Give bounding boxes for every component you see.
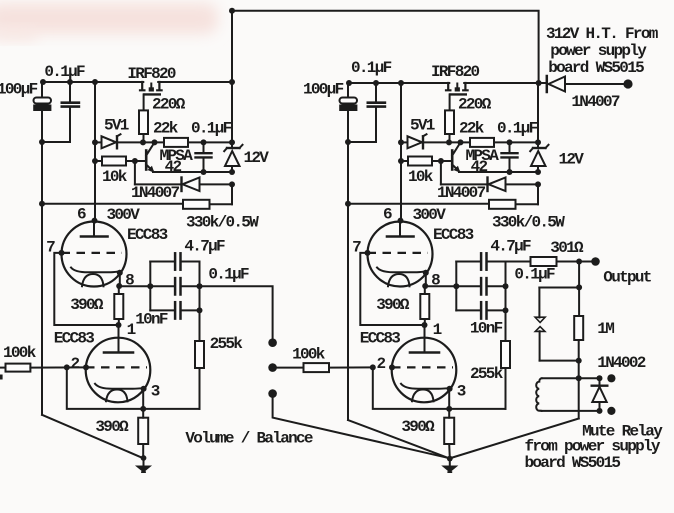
svg-text:301Ω: 301Ω	[550, 239, 584, 257]
wire base column to 1N4007 cathode (right)	[440, 161, 442, 184]
capacitor 4.7µF (right) right wire	[488, 261, 506, 263]
node cap-bank left bus junction (right)	[453, 283, 459, 289]
wire zener column upper feed (left)	[231, 82, 233, 142]
wire 22k to zener column (left)	[188, 141, 232, 143]
resistor 220Ω (left)	[139, 110, 148, 134]
capacitor 10nF (left) plates	[174, 302, 177, 318]
svg-text:100k: 100k	[3, 344, 37, 362]
tube upper (left) anode	[93, 221, 95, 236]
capacitor 10nF (left) right wire	[182, 309, 200, 311]
node pin1 junction (right)	[422, 322, 428, 328]
tube upper (right) cathode	[377, 268, 426, 273]
svg-text:3: 3	[457, 383, 466, 401]
node emitter/12V anode (right)	[535, 169, 541, 175]
resistor 22k (left)	[164, 138, 188, 147]
node 1M top junction	[576, 284, 582, 290]
wire 390Ω to pin1 node (left)	[118, 319, 120, 325]
wire left output to pot top	[200, 286, 273, 338]
wire contact to 1M column	[540, 360, 579, 362]
transistor IRF820 (right) drain lead	[446, 83, 450, 90]
tube lower (left) heater dome	[106, 390, 128, 402]
node ground column / 330k wire (right)	[345, 201, 351, 207]
node 0.1µF/rail junction (left)	[67, 79, 73, 85]
svg-text:390Ω: 390Ω	[70, 296, 104, 314]
wire 10k to MPSA42 base (right)	[432, 160, 451, 162]
node 12V zener top junction (right)	[535, 139, 541, 145]
wire 5V1 cathode to gate net (right)	[422, 141, 450, 143]
svg-text:0.1µF: 0.1µF	[351, 59, 392, 77]
wire 330k to ground column (left)	[42, 203, 183, 205]
transistor IRF820 (right) gate lead	[449, 94, 451, 111]
wire emitter row (left)	[153, 171, 232, 173]
capacitor 10nF (left) left wire	[150, 309, 174, 311]
node ground column / 330k wire (left)	[39, 201, 45, 207]
capacitor 100µF (left channel) lead	[41, 82, 43, 97]
wire base column to 1N4007 cathode (left)	[134, 161, 136, 184]
capacitor 10nF (right) plates	[480, 302, 483, 318]
capacitor 4.7µF (right) plates	[480, 253, 483, 269]
svg-text:220Ω: 220Ω	[458, 96, 492, 114]
tube ECC83 lower triode (left) envelope	[86, 338, 151, 403]
svg-text:12V: 12V	[559, 151, 585, 169]
node 0.1µF/rail junction (right)	[373, 80, 379, 86]
wire B+ rail right segment (right channel)	[464, 82, 538, 84]
relay contact (mute)	[538, 288, 540, 318]
tube upper (left) heater dome	[82, 274, 104, 286]
wire right bus to 255k (left)	[199, 310, 201, 341]
svg-text:power supply: power supply	[550, 42, 647, 60]
svg-text:220Ω: 220Ω	[152, 96, 186, 114]
node cap-bank right bus junction (left)	[197, 283, 203, 289]
node rail / 300V column junction (left)	[92, 79, 98, 85]
wire 300V column (left)	[94, 82, 96, 221]
svg-text:390Ω: 390Ω	[401, 418, 435, 436]
svg-text:100µF: 100µF	[303, 81, 344, 99]
wire B+ rail right segment (left channel)	[158, 81, 232, 83]
wire output row to relay contact	[539, 287, 579, 289]
svg-text:1N4007: 1N4007	[571, 93, 620, 111]
wire 100k to grid junction (left)	[30, 366, 86, 368]
node tube pin 3 cathode exit (right)	[447, 386, 453, 392]
wire output node down	[578, 262, 580, 317]
resistor 220Ω (right)	[445, 110, 454, 134]
svg-text:ECC83: ECC83	[360, 330, 401, 348]
node 220Ω bottom (left)	[140, 139, 146, 145]
node tube pin 8 cathode exit (right)	[423, 270, 429, 276]
wire H.T. diode to terminal	[565, 83, 624, 85]
svg-text:1: 1	[433, 321, 442, 339]
node base/1N4007 junction (left)	[132, 158, 138, 164]
node 12V zener top junction (left)	[229, 139, 235, 145]
capacitor 0.1µF (left) left wire	[150, 285, 174, 287]
svg-text:Output: Output	[603, 269, 652, 287]
transistor IRF820 (right) source lead	[463, 83, 467, 90]
node grid-return junction (left)	[64, 364, 70, 370]
wire pin3 down (left)	[142, 389, 144, 409]
wire 100µF negative to ground column (left)	[41, 111, 43, 142]
node pin1 junction (left)	[116, 322, 122, 328]
svg-text:ECC83: ECC83	[127, 226, 168, 244]
svg-text:42: 42	[471, 158, 488, 176]
node base/1N4007 junction (right)	[438, 158, 444, 164]
capacitor 0.1µF (right) left wire	[456, 285, 480, 287]
resistor 390Ω lower (left)	[138, 418, 148, 444]
wire top link to left rail	[231, 11, 233, 82]
node left rail / top link	[229, 79, 235, 85]
wire pin3 down (right)	[448, 389, 450, 409]
wire cap-bank left bus (left)	[149, 262, 151, 311]
node output junction	[576, 259, 582, 265]
node right rail / H.T. entry	[536, 80, 542, 86]
ground symbol (right)	[449, 459, 451, 467]
svg-text:5V1: 5V1	[410, 117, 435, 135]
transistor MPSA42 (right) base bar	[451, 151, 454, 170]
capacitor 0.1µF decoupling (right) bottom lead	[375, 108, 377, 142]
svg-text:6: 6	[383, 206, 392, 224]
wire cap-bank right bus (left)	[199, 262, 201, 311]
tube upper (right) grid (dashed)	[368, 252, 428, 254]
svg-text:2: 2	[377, 355, 386, 373]
wire 22k to zener column (right)	[494, 141, 538, 143]
wire zener column lower (right)	[537, 166, 539, 172]
resistor 100k interstage	[304, 363, 330, 372]
node rail / 300V column junction (right)	[398, 80, 404, 86]
svg-text:0.1µF: 0.1µF	[191, 120, 232, 138]
transistor IRF820 (left) gate lead	[143, 94, 145, 111]
transistor IRF820 (left) body arrow	[149, 87, 154, 91]
svg-text:12V: 12V	[244, 149, 270, 167]
capacitor 4.7µF (left) right wire	[182, 261, 200, 263]
node tube pin 2 grid entry (left)	[83, 364, 89, 370]
wire 10k to MPSA42 base (left)	[126, 160, 145, 162]
svg-text:10nF: 10nF	[470, 320, 503, 338]
svg-text:2: 2	[71, 355, 80, 373]
node 1N4007 anode junction (left)	[229, 181, 235, 187]
capacitor 100µF (left) bottom plate	[33, 105, 51, 112]
svg-text:Volume / Balance: Volume / Balance	[185, 430, 313, 448]
wire 1N4007 anode to zener column (left)	[200, 183, 233, 185]
wire 100k to right grid junction	[329, 366, 373, 368]
transistor IRF820 (left) source lead	[157, 82, 161, 90]
node ground junction (right)	[447, 456, 453, 462]
capacitor 0.1µF (left) right wire	[182, 285, 200, 287]
capacitor 0.1µF gate (left) bottom lead	[203, 159, 205, 173]
capacitor 0.1µF (right) right wire	[488, 285, 506, 287]
node pot bottom terminal	[268, 389, 277, 398]
wire right bus to 255k (right)	[505, 310, 507, 341]
wire zener column to 330k (left)	[231, 184, 233, 204]
transistor MPSA42 (right) collector	[452, 142, 460, 155]
wire grid return (right)	[373, 367, 449, 409]
node pin8 junction (right)	[422, 283, 428, 289]
node 100µF/rail junction (left)	[40, 79, 46, 85]
diode 12V zener (right)	[533, 147, 546, 149]
node tube pin 8 cathode exit (left)	[117, 270, 123, 276]
svg-text:10k: 10k	[408, 168, 434, 186]
svg-text:312V H.T. From: 312V H.T. From	[546, 25, 659, 43]
diode 1N4007 (right)	[486, 178, 488, 192]
wire B+ rail left segment (left channel)	[42, 81, 143, 83]
wire 100µF negative to ground column (right)	[347, 111, 349, 142]
wire grid return (left)	[67, 367, 143, 409]
wire pin8 to cap bank (left)	[120, 285, 151, 287]
tube upper (right) heater dome	[388, 274, 410, 286]
capacitor 100µF (left) top plate	[34, 98, 52, 104]
resistor 330k/0.5W (right)	[489, 200, 516, 209]
transistor IRF820 (right) body arrow	[455, 87, 460, 91]
resistor 22k (right)	[470, 138, 494, 147]
wire pin7 to pin1 (SRPP link) (right)	[360, 253, 424, 325]
node emitter/0.1µF bottom (right)	[507, 169, 513, 175]
node tube pin 2 grid entry (right)	[389, 364, 395, 370]
tube upper (right) anode	[399, 221, 401, 236]
tube ECC83 lower triode (right) envelope	[392, 338, 457, 403]
tube upper (left) cathode	[71, 268, 120, 273]
capacitor 0.1µF decoupling (left) top lead	[69, 82, 71, 101]
node 1N4007 anode junction (right)	[535, 181, 541, 187]
tube lower (left) cathode	[95, 384, 145, 389]
wire zener column upper feed (right)	[537, 83, 539, 142]
wire 300V column (right)	[400, 83, 402, 221]
wire 390Ω lower top lead (left)	[142, 409, 144, 418]
node 220Ω bottom (right)	[446, 139, 452, 145]
wire 390Ω lower top lead (right)	[448, 409, 450, 418]
capacitor 10nF (right) left wire	[456, 309, 480, 311]
capacitor 0.1µF gate (right) bottom lead	[509, 159, 511, 173]
svg-text:0.1µF: 0.1µF	[497, 120, 538, 138]
capacitor 100µF (right) bottom plate	[339, 105, 357, 112]
node 10k left junction (right)	[398, 158, 404, 164]
svg-text:330k/0.5W: 330k/0.5W	[492, 214, 565, 232]
wire 300V column to 10k (left)	[95, 160, 102, 162]
svg-text:4.7µF: 4.7µF	[490, 238, 531, 256]
wire zener column to 330k (right)	[537, 184, 539, 204]
svg-text:7: 7	[46, 239, 55, 257]
input edge mark	[0, 375, 3, 380]
svg-text:300V: 300V	[413, 206, 447, 224]
wire cap bottoms to ground column (left)	[42, 141, 70, 143]
transistor MPSA42 (right) emitter	[452, 165, 459, 172]
capacitor 0.1µF decoupling (right) top lead	[375, 83, 377, 101]
wire gate net (left)	[143, 141, 164, 143]
resistor 255k (right)	[501, 341, 510, 368]
wire relay coil bottom	[542, 410, 596, 412]
transistor MPSA42 (left) emitter	[146, 165, 153, 172]
svg-text:1N4002: 1N4002	[597, 354, 646, 372]
node tube pin 3 cathode exit (left)	[141, 386, 147, 392]
capacitor 0.1µF gate (left) top lead	[203, 142, 205, 152]
capacitor 0.1µF gate (left) plates	[196, 152, 212, 154]
svg-text:1N4007: 1N4007	[437, 184, 486, 202]
node 100µF/rail junction (right)	[346, 80, 352, 86]
relay terminal upper	[607, 374, 615, 382]
wire 1N4007 anode to zener column (right)	[506, 183, 539, 185]
wire pin8 to 390Ω (left)	[118, 286, 120, 294]
wire relay coil top	[542, 377, 596, 379]
svg-text:255k: 255k	[210, 335, 244, 353]
tube lower (right) heater dome	[412, 390, 434, 402]
resistor 10k (right)	[408, 157, 432, 166]
wire 220Ω to gate net (left)	[143, 134, 145, 142]
node 0.1µF top junction (left)	[201, 139, 207, 145]
wire 390Ω lower to ground (right)	[448, 444, 451, 458]
node 1N4002 bottom junction	[597, 408, 603, 414]
diode 1N4007 H.T. feed	[546, 76, 549, 92]
node ground column / 0.1µF bottom (left)	[39, 139, 45, 145]
node 0.1µF top junction (right)	[507, 139, 513, 145]
node 1M / contact junction	[576, 358, 582, 364]
node coil top / 1M column	[576, 375, 582, 381]
diode 1N4002 relay flyback	[599, 378, 601, 385]
capacitor 0.1µF (left) plates	[174, 278, 177, 294]
diode 1N4007 (left)	[180, 178, 182, 192]
wire zener column lower (left)	[231, 166, 233, 172]
diode 5V1 zener (left)	[102, 136, 117, 148]
node top link left corner	[229, 8, 235, 14]
wire cathode row to 255k (right)	[449, 408, 505, 410]
svg-text:IRF820: IRF820	[127, 65, 176, 83]
node MPSA42 collector junction (right)	[458, 139, 464, 145]
svg-text:ECC83: ECC83	[54, 330, 95, 348]
tube lower (left) grid (dashed)	[86, 366, 147, 368]
node cap-bank 255k junction (right)	[503, 307, 509, 313]
svg-text:7: 7	[352, 239, 361, 257]
transistor IRF820 (left) channel bar	[144, 93, 159, 95]
node tube pin 7 (right)	[365, 250, 371, 256]
tube lower (right) anode	[424, 325, 426, 352]
wire cathode to pin8 node (right)	[425, 273, 427, 286]
output terminal	[591, 257, 600, 266]
svg-text:5V1: 5V1	[104, 117, 129, 135]
resistor 255k (left)	[195, 341, 204, 368]
node emitter/0.1µF bottom (left)	[201, 169, 207, 175]
svg-text:board WS5015: board WS5015	[525, 454, 621, 472]
capacitor 0.1µF (right) plates	[480, 278, 483, 294]
svg-text:1N4007: 1N4007	[131, 184, 180, 202]
wire cathode to pin8 node (left)	[119, 273, 121, 286]
transistor MPSA42 (left) base bar	[145, 151, 148, 170]
wire cathode row to 255k (left)	[143, 408, 199, 410]
relay terminal lower	[607, 407, 615, 415]
wire pin8 to cap bank (right)	[426, 285, 457, 287]
tube upper (left) grid (dashed)	[62, 252, 122, 254]
svg-text:8: 8	[125, 272, 134, 290]
node grid-return junction (right)	[370, 364, 376, 370]
wire 330k to ground column (right)	[348, 203, 489, 205]
wire 390Ω lower to ground (left)	[142, 444, 144, 458]
svg-text:4.7µF: 4.7µF	[184, 238, 225, 256]
capacitor 4.7µF (right) left wire	[456, 261, 480, 263]
svg-text:22k: 22k	[153, 120, 179, 138]
capacitor 0.1µF gate (right) top lead	[509, 142, 511, 152]
node tube pin 7 (left)	[59, 250, 65, 256]
wire 220Ω to gate net (right)	[449, 134, 451, 142]
capacitor 100µF (right channel) lead	[347, 83, 349, 97]
capacitor 0.1µF gate (right) plates	[502, 152, 518, 154]
transistor IRF820 (left) drain lead	[140, 82, 144, 90]
node ground junction (left)	[141, 455, 147, 461]
svg-text:6: 6	[77, 206, 86, 224]
wire ground column (left)	[41, 142, 43, 415]
wire 390Ω to pin1 node (right)	[424, 319, 426, 325]
tube lower (right) cathode	[401, 384, 451, 389]
capacitor 4.7µF (left) left wire	[150, 261, 174, 263]
tube ECC83 upper triode (left) envelope	[62, 222, 127, 287]
svg-text:8: 8	[431, 272, 440, 290]
svg-text:390Ω: 390Ω	[376, 296, 410, 314]
wire 300V column to 10k (right)	[401, 160, 408, 162]
wire right rail to H.T. diode	[539, 82, 546, 84]
wire 5V1 cathode to gate net (left)	[116, 141, 144, 143]
svg-text:board WS5015: board WS5015	[548, 59, 644, 77]
wire 255k bottom (right)	[505, 368, 507, 409]
resistor 330k/0.5W (left)	[183, 200, 210, 209]
node 1N4002 top junction	[597, 375, 603, 381]
node pin8 junction (left)	[116, 283, 122, 289]
wire ground diagonal (left)	[42, 415, 143, 458]
svg-text:10k: 10k	[102, 168, 128, 186]
node tube pin 6 junction (left)	[92, 218, 98, 224]
capacitor 0.1µF decoupling (left) plates	[62, 101, 79, 104]
svg-text:0.1µF: 0.1µF	[44, 63, 85, 81]
svg-text:1: 1	[127, 321, 136, 339]
tube ECC83 upper triode (right) envelope	[368, 222, 433, 287]
svg-text:255k: 255k	[470, 365, 504, 383]
tube lower (left) anode	[118, 325, 120, 352]
wire zener column upper (left)	[231, 142, 233, 148]
node tube pin 6 junction (right)	[398, 218, 404, 224]
wire cap bank to 301Ω	[506, 261, 531, 263]
wire cap-bank left bus (right)	[455, 262, 457, 311]
tube lower (right) grid (dashed)	[392, 366, 453, 368]
node cap-bank right bus junction (right)	[503, 283, 509, 289]
diode 12V zener (left)	[227, 147, 240, 149]
wire ground diagonal (right)	[348, 420, 450, 458]
wire 1M bottom	[578, 340, 580, 419]
transistor MPSA42 (left) collector	[146, 142, 154, 155]
svg-text:0.1µF: 0.1µF	[208, 266, 249, 284]
node ground column / 0.1µF bottom (right)	[345, 139, 351, 145]
node MPSA42 collector junction (left)	[152, 139, 158, 145]
diode 5V1 zener (right)	[408, 136, 423, 148]
wire 301Ω to output	[557, 261, 592, 263]
node 5V1 anode junction (right)	[398, 139, 404, 145]
svg-text:IRF820: IRF820	[431, 63, 480, 81]
transistor IRF820 (right) channel bar	[450, 93, 465, 95]
wire cap bottoms to ground column (right)	[348, 141, 376, 143]
svg-text:3: 3	[151, 383, 160, 401]
svg-text:0.1µF: 0.1µF	[514, 266, 555, 284]
svg-text:330k/0.5W: 330k/0.5W	[186, 214, 259, 232]
wire pin8 to 390Ω (right)	[424, 286, 426, 294]
node pot top terminal	[268, 338, 277, 347]
resistor 390Ω lower (right)	[444, 418, 454, 444]
H.T. input terminal	[623, 79, 632, 88]
wire gate net (right)	[449, 141, 470, 143]
wire relay column ground diagonal	[450, 419, 579, 459]
node cap-bank left bus junction (left)	[147, 283, 153, 289]
node emitter/12V anode (left)	[229, 169, 235, 175]
wire 255k bottom (left)	[199, 368, 201, 409]
wire ground column (right)	[347, 142, 349, 420]
wire pin7 to pin1 (SRPP link) (left)	[54, 253, 118, 325]
capacitor 10nF (right) right wire	[488, 309, 506, 311]
wire 300V column to 5V1 anode (right)	[401, 141, 407, 143]
svg-text:22k: 22k	[459, 120, 485, 138]
svg-text:1M: 1M	[597, 320, 614, 338]
wire pot bottom to ground	[273, 397, 450, 458]
node pot wiper terminal	[268, 363, 277, 372]
